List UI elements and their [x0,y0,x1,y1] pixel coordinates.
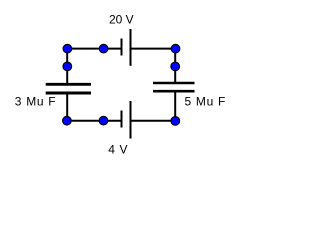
wire left-column lower segment [66,93,68,122]
wire top-right segment [131,48,176,50]
svg-text:4 V: 4 V [108,142,128,156]
wire top-left segment [67,48,120,50]
wire bottom-right segment [131,120,176,122]
node on left column above C1 [63,62,72,71]
battery V1 tall plate (positive) [130,29,132,66]
wire right-column upper segment [174,48,176,83]
wire right-column lower segment [174,91,176,122]
node on top wire [99,44,108,53]
wire left-column upper segment [66,48,68,85]
capacitor C1 top plate [46,83,91,86]
node junction top-right corner [171,44,180,53]
capacitor C2 bottom plate [153,90,195,93]
node on right column above C2 [171,62,180,71]
battery V2 short plate (negative) [121,111,123,128]
svg-text:3 Mu F: 3 Mu F [15,94,57,108]
node junction top-left corner [63,44,72,53]
node junction bottom-left corner [63,116,72,125]
battery V1 short plate (negative) [121,39,123,56]
wire bottom-left segment [67,120,120,122]
node junction bottom-right corner [171,117,180,126]
battery V2 tall plate (positive) [130,101,132,139]
svg-text:5 Mu F: 5 Mu F [185,95,227,109]
capacitor C1 bottom plate [46,92,91,95]
capacitor C2 top plate [153,82,195,85]
svg-text:20 V: 20 V [109,13,134,27]
node on bottom wire [99,116,108,125]
